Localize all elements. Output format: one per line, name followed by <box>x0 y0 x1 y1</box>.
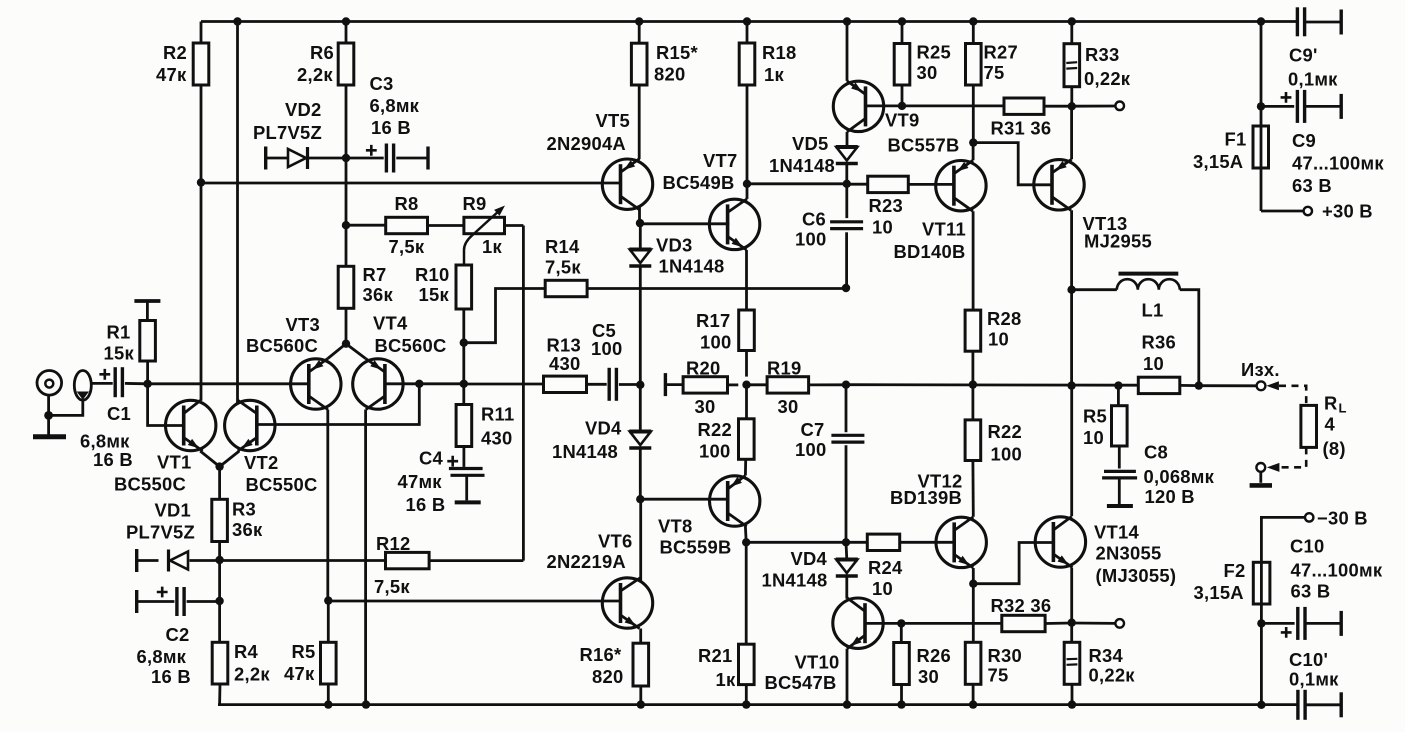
svg-text:R27: R27 <box>984 42 1019 63</box>
svg-text:VT8: VT8 <box>658 516 692 537</box>
svg-text:75: 75 <box>988 665 1009 686</box>
svg-text:R20: R20 <box>686 358 721 379</box>
node R21 bottom rail <box>742 700 750 708</box>
svg-text:VT14: VT14 <box>1094 522 1139 543</box>
svg-text:R26: R26 <box>917 645 952 666</box>
resistor R14 <box>545 236 587 297</box>
wire rail corner down <box>1260 22 1263 212</box>
node VT3/VT4 emitters <box>342 340 350 348</box>
node VD1/R3/R12 <box>215 556 223 564</box>
wire VT9 emitter to rail <box>846 22 849 81</box>
wire VT1 collector <box>200 183 203 401</box>
svg-text:63 В: 63 В <box>1291 581 1331 602</box>
node F2/C10 <box>1257 619 1265 627</box>
wire +rail top <box>201 20 1297 23</box>
node R26 bottom rail <box>897 700 905 708</box>
transistor VT2 <box>225 400 318 495</box>
svg-text:30: 30 <box>918 666 939 687</box>
node R18/VT7 collector/VD5 <box>743 180 751 188</box>
resistor R27 <box>966 22 1019 143</box>
svg-text:R9: R9 <box>463 193 487 214</box>
wire R10 node to R14 <box>464 289 545 343</box>
svg-text:1N4148: 1N4148 <box>552 441 618 462</box>
svg-text:R28: R28 <box>987 308 1022 329</box>
svg-text:4: 4 <box>1325 414 1336 435</box>
svg-text:R22: R22 <box>988 421 1023 442</box>
svg-text:VT5: VT5 <box>596 110 630 131</box>
node L1 right <box>1195 381 1203 389</box>
svg-text:VD4: VD4 <box>791 548 828 569</box>
node VT5 collector/VD3/VT7 base <box>636 219 644 227</box>
svg-text:R2: R2 <box>163 42 187 63</box>
wire VT5 base line <box>201 182 621 185</box>
resistor R22 (middle) <box>698 385 755 462</box>
node VT9 base/R25/R31 <box>898 102 906 110</box>
wire R10 node down <box>462 343 465 384</box>
node C5/VD chain <box>636 381 644 389</box>
node R19/C6/C7/output <box>842 381 850 389</box>
fuse F2 3,15A <box>1194 560 1270 705</box>
transistor VT3 <box>246 314 341 410</box>
terminal output <box>1241 359 1280 390</box>
wire to +30V terminal <box>1261 210 1303 213</box>
svg-text:820: 820 <box>592 666 623 687</box>
wire VT14 base link <box>973 543 1053 584</box>
transistor VT6 <box>547 531 653 629</box>
svg-text:R16*: R16* <box>580 644 622 665</box>
svg-text:R: R <box>1324 393 1338 414</box>
node top rail / R25 <box>898 17 906 25</box>
wire R32 to R34 node <box>1045 622 1072 625</box>
svg-text:C10': C10' <box>1289 649 1328 670</box>
svg-text:100: 100 <box>700 332 731 353</box>
node C9/F1 <box>1257 102 1265 110</box>
node F2 bottom rail <box>1257 701 1265 709</box>
svg-text:BC560C: BC560C <box>375 335 447 356</box>
capacitor C6 <box>795 184 863 288</box>
svg-text:6,8мк: 6,8мк <box>370 95 420 116</box>
svg-text:F1: F1 <box>1225 129 1247 150</box>
resistor R5 (47к) <box>284 601 336 705</box>
svg-text:30: 30 <box>917 62 938 83</box>
svg-text:C8: C8 <box>1144 442 1168 463</box>
svg-text:47мк: 47мк <box>398 471 443 492</box>
node VD5/R23/C6 <box>843 180 851 188</box>
wire jack tip down <box>47 395 50 435</box>
diode VD2 PL7V5Z <box>253 99 346 170</box>
node R11 top <box>460 380 468 388</box>
wire to R13 <box>464 383 544 386</box>
svg-text:100: 100 <box>795 229 826 250</box>
node R27/VT11 emitter/VT13 base <box>969 138 977 146</box>
capacitor C9' <box>1288 7 1341 89</box>
resistor R15* <box>631 22 698 160</box>
node top rail / R6 <box>342 17 350 25</box>
resistor R26 <box>894 623 951 704</box>
resistor RL load <box>1301 393 1347 460</box>
svg-text:16 В: 16 В <box>93 449 133 470</box>
node C2/R4 <box>215 597 223 605</box>
svg-text:−30 В: −30 В <box>1317 508 1368 529</box>
svg-text:R33: R33 <box>1085 44 1120 65</box>
svg-text:0,1мк: 0,1мк <box>1288 69 1338 90</box>
terminal upper sense <box>1115 102 1124 111</box>
svg-text:C4: C4 <box>419 448 444 469</box>
node top rail / R15 <box>635 17 643 25</box>
resistor R22 (right) <box>965 385 1022 517</box>
svg-text:VT10: VT10 <box>795 652 840 673</box>
svg-text:1N4148: 1N4148 <box>769 155 835 176</box>
svg-text:BD140B: BD140B <box>894 241 966 262</box>
svg-text:R14: R14 <box>545 236 580 257</box>
wire output line <box>846 383 1138 386</box>
node VT3 collector/R5/VT6 base <box>324 596 332 604</box>
svg-text:L: L <box>1339 401 1347 416</box>
resistor R9 (trimmer) <box>463 193 506 266</box>
resistor R19 <box>747 358 847 418</box>
resistor R34 <box>1064 623 1135 705</box>
wire VT9 base <box>866 105 903 108</box>
node top rail / VT9 emitter <box>843 17 851 25</box>
svg-text:16 В: 16 В <box>371 117 411 138</box>
wire R31 node to terminal <box>1072 105 1116 108</box>
wire R18 node to VD5 node <box>747 182 846 185</box>
transistor VT7 <box>663 150 760 250</box>
wire R31 to R33 node <box>1044 105 1072 108</box>
svg-text:VD5: VD5 <box>792 133 829 154</box>
svg-text:VD4: VD4 <box>585 418 622 439</box>
svg-text:15к: 15к <box>419 284 450 305</box>
svg-text:PL7V5Z: PL7V5Z <box>253 122 322 143</box>
svg-text:1к: 1к <box>764 64 784 85</box>
transistor VT11 <box>894 160 987 262</box>
wire jack sleeve to ground <box>49 400 83 416</box>
svg-text:VD3: VD3 <box>656 235 693 256</box>
node top rail / R18 <box>743 17 751 25</box>
wire R3 node down <box>218 560 221 601</box>
wire input to VT3 base <box>148 382 309 385</box>
node R2/VT1 collector/VT5 base <box>197 178 205 186</box>
arrow into output <box>1266 381 1279 390</box>
svg-text:47к: 47к <box>156 64 187 85</box>
capacitor C3 <box>346 73 428 173</box>
wire to output terminal <box>1199 384 1256 387</box>
svg-text:L1: L1 <box>1142 300 1164 321</box>
wire R34 node to terminal <box>1072 622 1116 625</box>
connector input jack <box>37 371 91 401</box>
resistor R23 <box>847 176 955 237</box>
svg-text:C3: C3 <box>370 73 394 94</box>
svg-text:C2: C2 <box>166 624 190 645</box>
svg-text:430: 430 <box>481 428 512 449</box>
svg-text:16 В: 16 В <box>406 494 446 515</box>
wire VT9 collector to VD5 <box>846 132 849 148</box>
node R17/R20/R19/R22 <box>742 381 750 389</box>
node R5 bottom rail <box>324 700 332 708</box>
svg-text:C7: C7 <box>801 419 825 440</box>
svg-text:C6: C6 <box>802 209 826 230</box>
svg-text:R7: R7 <box>363 264 387 285</box>
svg-text:0,068мк: 0,068мк <box>1144 466 1215 487</box>
svg-text:BC559B: BC559B <box>660 537 732 558</box>
wire VD3 to C5 node <box>639 266 642 385</box>
svg-text:PL7V5Z: PL7V5Z <box>126 522 195 543</box>
wire VT8 collector down <box>744 527 748 543</box>
node R28 bottom/output <box>969 380 977 388</box>
svg-text:36к: 36к <box>232 519 263 540</box>
svg-text:100: 100 <box>795 439 826 460</box>
wire return to ground <box>1259 472 1262 483</box>
node top rail / F1 branch <box>1257 17 1265 25</box>
svg-text:VD2: VD2 <box>285 99 322 120</box>
svg-text:R3: R3 <box>232 499 256 520</box>
svg-text:47...100мк: 47...100мк <box>1292 153 1384 174</box>
resistor R18 <box>739 22 796 184</box>
resistor R4 <box>212 601 270 705</box>
svg-text:1к: 1к <box>482 236 502 257</box>
svg-text:10: 10 <box>872 217 893 238</box>
wire VT4 base to R13 node <box>419 382 464 385</box>
transistor VT1 <box>114 400 216 495</box>
diode VD3 1N4148 <box>629 223 724 276</box>
wire R36 to L1 right <box>1180 384 1199 387</box>
svg-text:R12: R12 <box>376 533 411 554</box>
svg-text:BC557B: BC557B <box>888 135 960 156</box>
svg-text:BD139B: BD139B <box>890 487 962 508</box>
svg-text:3,15A: 3,15A <box>1194 582 1244 603</box>
svg-text:VT9: VT9 <box>885 110 919 131</box>
svg-text:1к: 1к <box>716 669 736 690</box>
transistor VT4 <box>353 313 447 410</box>
svg-text:Изх.: Изх. <box>1241 359 1280 380</box>
svg-text:VT3: VT3 <box>286 314 320 335</box>
wire VT13 collector down <box>1070 210 1073 289</box>
wire VT10 emitter down <box>846 649 849 705</box>
svg-text:R17: R17 <box>696 310 731 331</box>
wire VT14 emitter down <box>1070 568 1073 623</box>
svg-text:430: 430 <box>549 353 580 374</box>
node VT10 emitter rail <box>843 700 851 708</box>
svg-text:2N3055: 2N3055 <box>1096 543 1162 564</box>
node R6/VD2/C3 <box>342 154 350 162</box>
wire VT7 emitter to R17 <box>745 250 748 310</box>
resistor R32 <box>991 595 1052 632</box>
svg-text:16 В: 16 В <box>151 666 191 687</box>
svg-text:2,2к: 2,2к <box>297 64 333 85</box>
diode VD4 1N4148 (upper) <box>552 385 651 462</box>
svg-text:R1: R1 <box>107 322 131 343</box>
svg-text:10: 10 <box>1143 353 1164 374</box>
svg-text:100: 100 <box>591 338 622 359</box>
resistor R31 <box>991 98 1052 139</box>
wire VT11 emitter up <box>972 143 975 161</box>
svg-text:0,1мк: 0,1мк <box>1289 669 1339 690</box>
node R33/VT13 emitter/R31 <box>1068 102 1076 110</box>
svg-text:BC550C: BC550C <box>246 474 318 495</box>
svg-text:VD1: VD1 <box>155 500 192 521</box>
svg-text:6,8мк: 6,8мк <box>137 646 187 667</box>
wire R13 to C5 <box>587 383 607 386</box>
resistor R33 <box>1064 22 1131 107</box>
node top rail / VT2 collector <box>233 17 241 25</box>
wire VT3 emitter <box>328 344 346 359</box>
svg-text:47...100мк: 47...100мк <box>1291 560 1383 581</box>
svg-text:BC547B: BC547B <box>765 672 837 693</box>
wire C5 to node <box>619 383 640 386</box>
node VT8 collector/R21/R24 <box>742 538 750 546</box>
terminal lower sense <box>1115 619 1124 628</box>
node L1 left <box>1067 286 1075 294</box>
resistor R20 <box>665 358 738 418</box>
node collectors/output <box>1067 381 1075 389</box>
transistor VT5 <box>547 110 653 210</box>
svg-text:7,5к: 7,5к <box>545 257 581 278</box>
wire VT12e to R30 <box>972 584 975 643</box>
wire VT2 base link <box>257 384 420 425</box>
resistor R7 <box>338 225 393 344</box>
svg-text:R30: R30 <box>988 645 1023 666</box>
wire VT2 collector <box>236 22 239 404</box>
wire VT14 collector up <box>1070 386 1073 517</box>
node VT10 base/R26/R32 <box>897 619 905 627</box>
resistor R6 <box>297 22 354 159</box>
arrow into return terminal <box>1267 463 1280 472</box>
svg-text:R8: R8 <box>395 193 419 214</box>
wire VD4 to VT8 base node <box>639 448 642 499</box>
svg-text:10: 10 <box>988 329 1009 350</box>
svg-text:R10: R10 <box>415 264 450 285</box>
wire base line to R31 <box>902 105 1004 108</box>
svg-text:R6: R6 <box>310 42 334 63</box>
resistor R8 <box>346 193 464 257</box>
svg-text:R5: R5 <box>1083 406 1107 427</box>
node VT4 collector/bottom rail <box>362 700 370 708</box>
transistor VT14 <box>1035 517 1176 587</box>
wire VT8 emitter up <box>744 459 747 475</box>
svg-text:820: 820 <box>654 64 685 85</box>
wire VT7 collector <box>746 184 749 199</box>
svg-text:VT2: VT2 <box>244 452 278 473</box>
svg-text:VT7: VT7 <box>703 150 737 171</box>
terminal R20 stub <box>664 373 667 396</box>
node top rail / R33 <box>1068 17 1076 25</box>
transistor VT8 <box>658 476 760 558</box>
svg-text:R11: R11 <box>481 404 514 425</box>
resistor R5 (10) <box>1083 386 1127 469</box>
svg-text:1N4148: 1N4148 <box>659 256 725 277</box>
svg-text:(MJ3055): (MJ3055) <box>1096 565 1177 586</box>
node input ground <box>44 411 53 420</box>
resistor R24 <box>846 534 955 599</box>
svg-text:R36: R36 <box>1142 332 1177 353</box>
node R8/R7 <box>342 221 350 229</box>
wire VT10 base <box>865 622 901 625</box>
transistor VT13 <box>1034 159 1152 251</box>
svg-text:0,22к: 0,22к <box>1089 665 1136 686</box>
wire R6 node to R8 node <box>345 158 348 225</box>
svg-text:C9: C9 <box>1292 130 1316 151</box>
transistor VT10 <box>765 598 884 693</box>
resistor R3 <box>212 467 263 560</box>
svg-text:F2: F2 <box>1224 560 1246 581</box>
diode VD4 1N4148 (lower) <box>762 542 858 598</box>
svg-text:C10: C10 <box>1290 536 1325 557</box>
resistor R1 <box>104 301 161 384</box>
svg-text:2N2904A: 2N2904A <box>547 133 626 154</box>
resistor R10 <box>415 264 472 343</box>
svg-text:R31 36: R31 36 <box>991 118 1052 139</box>
svg-text:BC549B: BC549B <box>663 172 735 193</box>
wire VT7 base <box>640 222 729 225</box>
wire feedback vertical <box>522 226 525 561</box>
node R34 bottom rail <box>1068 700 1076 708</box>
capacitor C1 <box>80 367 148 470</box>
node C6 bottom <box>842 284 850 292</box>
svg-text:7,5к: 7,5к <box>389 236 425 257</box>
capacitor C2 <box>137 587 220 687</box>
wire VT3 collector <box>326 410 329 601</box>
node R5/R36/output <box>1114 381 1122 389</box>
wire VT4 emitter <box>346 344 366 359</box>
svg-text:R19: R19 <box>767 358 802 379</box>
svg-text:36к: 36к <box>363 284 394 305</box>
wire bottom rail <box>218 703 1297 706</box>
svg-text:R23: R23 <box>869 195 904 216</box>
wire VT12 emitter down <box>972 568 975 584</box>
svg-text:BC550C: BC550C <box>114 474 186 495</box>
svg-text:1N4148: 1N4148 <box>762 570 828 591</box>
wire VT13 emitter up <box>1070 106 1073 159</box>
resistor R21 <box>698 542 754 704</box>
svg-text:(8): (8) <box>1323 438 1346 459</box>
transistor VT12 <box>890 471 986 568</box>
svg-text:10: 10 <box>872 578 893 599</box>
wire VT4 collector <box>364 410 367 705</box>
resistor R17 <box>696 310 754 377</box>
svg-text:R32 36: R32 36 <box>991 595 1052 616</box>
svg-text:VT4: VT4 <box>373 313 408 334</box>
svg-text:R4: R4 <box>234 641 259 662</box>
node VT4 base <box>415 380 423 388</box>
resistor R2 <box>156 22 209 183</box>
capacitor C4 <box>398 448 485 516</box>
wire VT6 collector <box>639 499 642 581</box>
node VT14 emitter/R32/R34 <box>1068 619 1076 627</box>
wire VT5 collector <box>638 207 641 223</box>
wire base line to R32 <box>901 622 1002 625</box>
wire -30V corner <box>1261 517 1305 562</box>
wire VT11 collector down <box>972 211 975 310</box>
resistor R12 <box>220 533 430 597</box>
capacitor C8 <box>1102 442 1215 508</box>
svg-text:R25: R25 <box>917 42 952 63</box>
wire R14 to C6 bottom <box>587 287 846 290</box>
wire VT13 base link <box>973 143 1051 185</box>
node VT12 emitter <box>969 580 977 588</box>
wire VT8c to C7 node <box>746 541 846 544</box>
terminal -30V <box>1305 508 1368 529</box>
svg-text:120 В: 120 В <box>1145 486 1195 507</box>
svg-text:30: 30 <box>695 396 716 417</box>
svg-text:R15*: R15* <box>656 42 698 63</box>
terminal +30V <box>1304 201 1373 222</box>
svg-text:7,5к: 7,5к <box>374 576 410 597</box>
svg-text:75: 75 <box>984 62 1005 83</box>
svg-text:100: 100 <box>699 441 730 462</box>
node R10/R14 branch <box>460 339 468 347</box>
svg-text:R24: R24 <box>868 557 903 578</box>
node C1/R1/input <box>143 380 151 388</box>
